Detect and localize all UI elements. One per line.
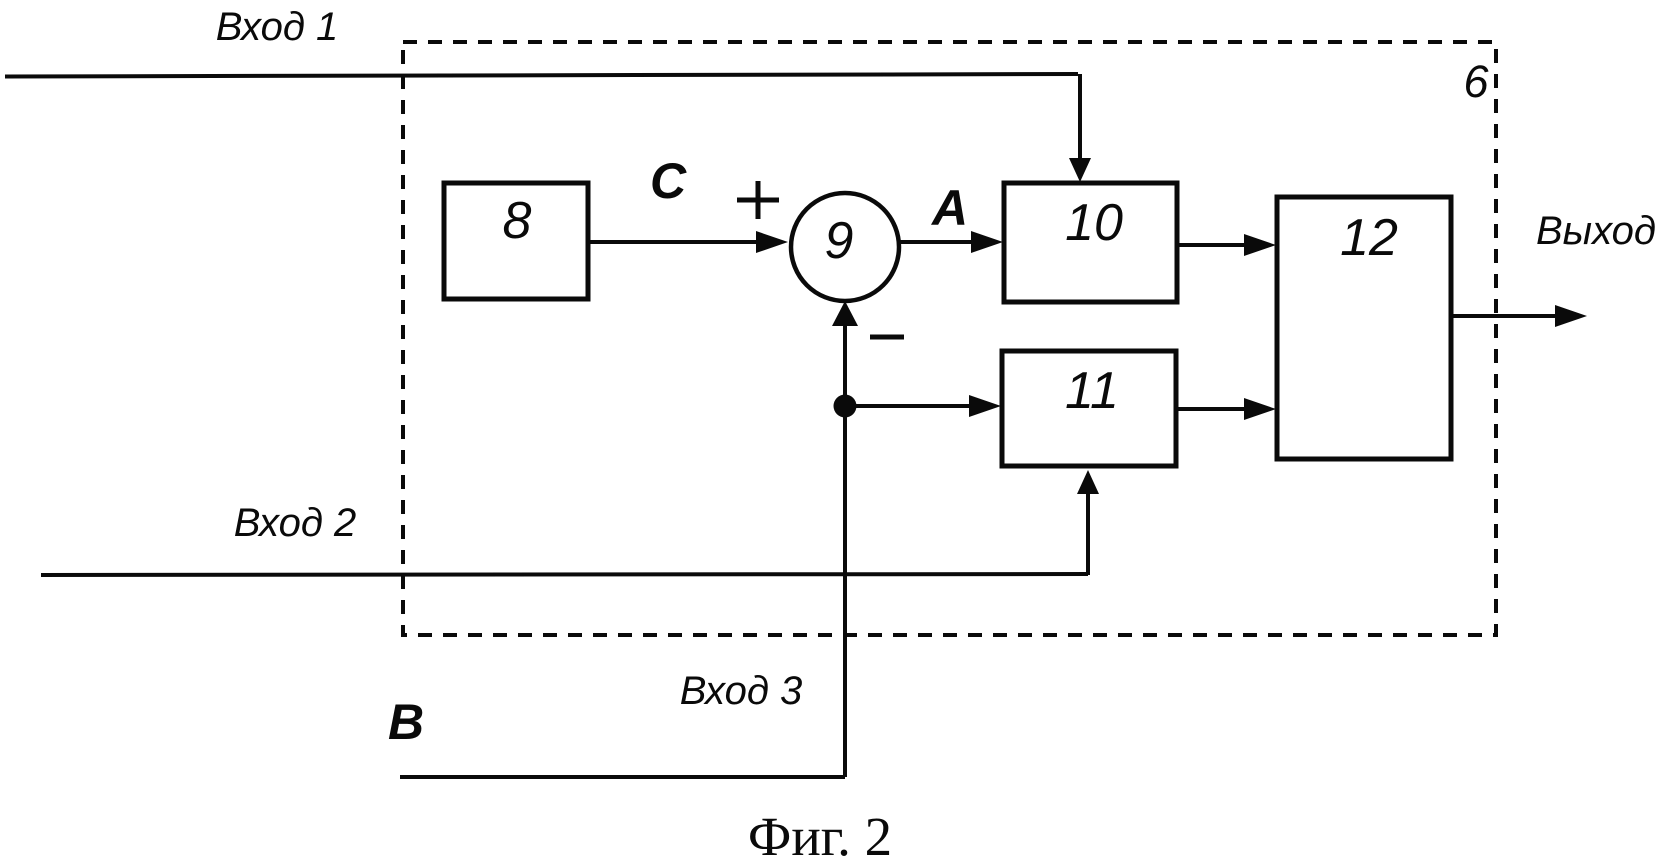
wire Вход 3 / B input [400, 301, 858, 777]
label Выход [1536, 209, 1656, 253]
svg-text:B: B [388, 694, 424, 750]
plus sign at summing junction [737, 181, 779, 219]
label B [388, 694, 424, 750]
label A [930, 180, 968, 236]
summing junction 9 [791, 193, 899, 301]
block 11 [1002, 351, 1176, 466]
caption Фиг. 2 [748, 806, 892, 863]
output wire Выход [1451, 305, 1587, 327]
svg-text:11: 11 [1065, 362, 1119, 420]
label Вход 1 [216, 5, 339, 49]
block 8 [444, 183, 588, 299]
wire from block 11 to block 12 [1176, 398, 1276, 420]
block 12 [1277, 197, 1451, 459]
block 10 [1004, 183, 1177, 302]
wire from junction to block 11 [845, 395, 1001, 417]
wire from summing junction 9 to block 10 [899, 231, 1003, 253]
wire from block 10 to block 12 [1177, 234, 1276, 256]
svg-text:Фиг. 2: Фиг. 2 [748, 806, 892, 863]
dashed boundary box 6 [403, 42, 1496, 635]
label Вход 3 [680, 669, 803, 713]
minus sign near summing junction [870, 335, 904, 340]
label Вход 2 [234, 501, 357, 545]
wire from block 8 to summing junction 9 [590, 231, 788, 253]
svg-text:9: 9 [825, 212, 854, 270]
svg-text:A: A [930, 180, 968, 236]
label C [650, 153, 687, 209]
junction node on B wire [834, 395, 857, 418]
svg-text:10: 10 [1065, 194, 1123, 252]
svg-text:Выход: Выход [1536, 209, 1656, 253]
svg-text:8: 8 [503, 192, 532, 250]
svg-text:Вход 1: Вход 1 [216, 5, 339, 49]
svg-text:C: C [650, 153, 687, 209]
svg-text:12: 12 [1340, 209, 1398, 267]
svg-text:Вход 2: Вход 2 [234, 501, 357, 545]
svg-text:Вход 3: Вход 3 [680, 669, 803, 713]
wire Вход 2 input [41, 470, 1099, 575]
wire Вход 1 input [5, 74, 1091, 182]
svg-text:6: 6 [1463, 56, 1489, 107]
label 6 [1463, 56, 1489, 107]
